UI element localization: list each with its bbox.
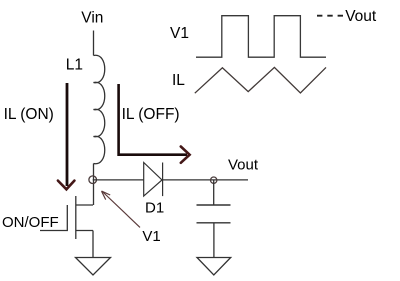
arrow IL(OFF) head	[181, 147, 190, 163]
capacitor C1 top plate	[197, 204, 231, 206]
wire node V1 to D1 anode	[93, 179, 144, 181]
svg-text:IL: IL	[172, 72, 185, 89]
transistor Q1 channel	[75, 196, 77, 239]
svg-text:V1: V1	[142, 228, 160, 245]
svg-text:Vout: Vout	[228, 157, 259, 174]
wire D1 cathode through Vout node to right	[163, 179, 248, 181]
capacitor C1 bottom plate	[197, 222, 231, 224]
svg-text:Vin: Vin	[81, 10, 103, 27]
inductor L1	[94, 55, 105, 164]
node V1 junction circle	[89, 176, 97, 184]
ground under Q1	[76, 258, 111, 276]
transistor Q1 drain stub	[76, 204, 93, 206]
diode D1 triangle	[144, 163, 162, 197]
wire C1 to ground	[213, 223, 215, 258]
arrow IL(ON) shaft	[66, 83, 69, 186]
svg-text:Vout: Vout	[345, 8, 377, 25]
svg-text:V1: V1	[170, 25, 189, 42]
waveform V1 square wave	[196, 16, 326, 58]
transistor Q1 source stub	[76, 230, 93, 232]
svg-text:IL (ON): IL (ON)	[4, 106, 54, 123]
wire Vin to L1	[93, 31, 95, 56]
arrow IL(ON) head	[58, 181, 75, 190]
ground under C1	[197, 258, 231, 276]
diode D1 cathode bar	[162, 163, 164, 197]
svg-text:D1: D1	[145, 200, 164, 217]
wire L1 through node V1 to Q1 drain	[93, 164, 95, 206]
waveform IL triangle wave	[195, 67, 326, 93]
legend Vout dashed sample	[317, 15, 343, 17]
wire Vout node to C1	[213, 180, 215, 205]
node Vout junction circle	[211, 177, 217, 183]
transistor Q1 source wire	[92, 231, 94, 258]
svg-text:ON/OFF: ON/OFF	[2, 214, 59, 231]
transistor Q1 gate	[40, 205, 67, 231]
svg-text:L1: L1	[66, 56, 83, 73]
arrow IL(OFF) shaft	[119, 84, 187, 155]
arrow V1 pointer	[102, 191, 141, 227]
svg-text:IL (OFF): IL (OFF)	[122, 106, 180, 123]
